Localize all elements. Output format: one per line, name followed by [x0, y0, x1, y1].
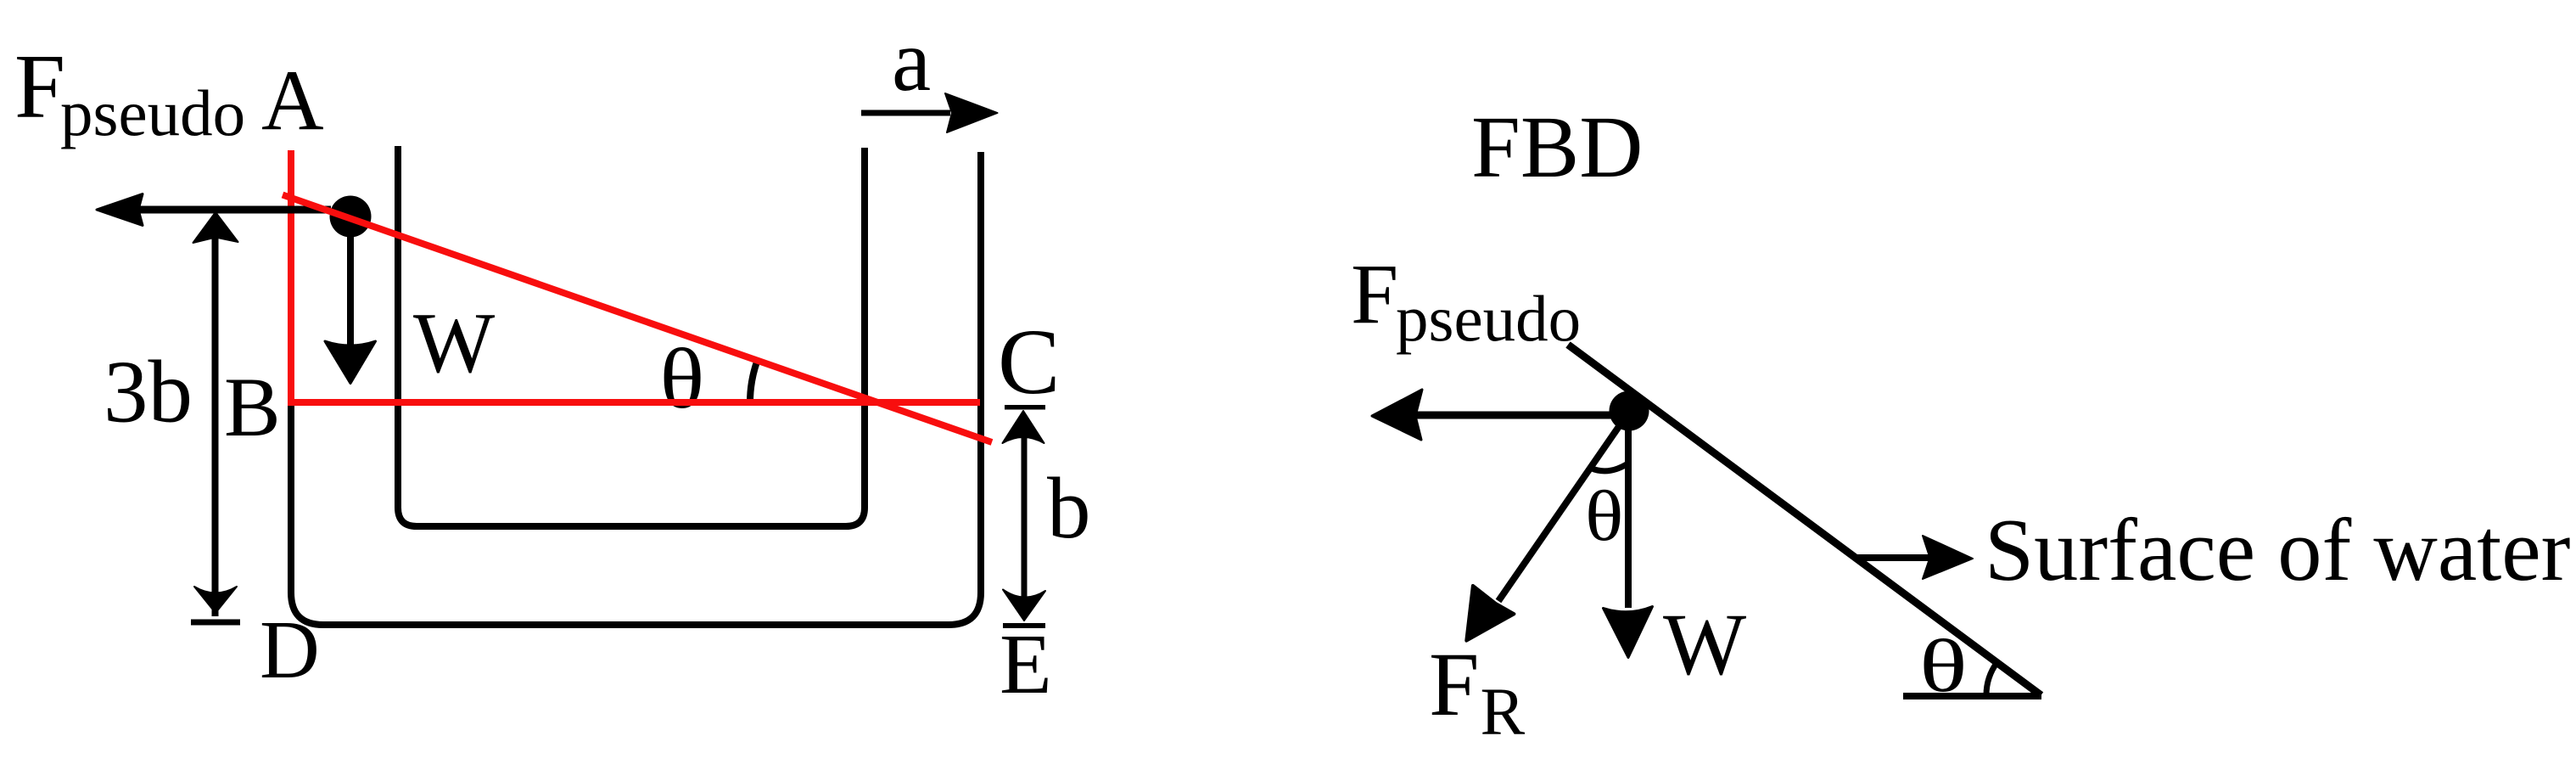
outer container wall [291, 152, 981, 625]
svg-text:b: b [1047, 460, 1091, 557]
svg-text:B: B [224, 360, 281, 454]
svg-text:a: a [892, 12, 931, 110]
bottom tick of 3b [191, 620, 240, 626]
svg-text:E: E [1000, 616, 1052, 711]
inner container wall [398, 146, 865, 526]
svg-text:θ: θ [1919, 624, 1968, 708]
svg-text:D: D [260, 604, 320, 696]
svg-text:W: W [413, 295, 496, 391]
tick at E level [1003, 623, 1045, 628]
label theta (bottom) [1919, 624, 1968, 708]
W arrow (FBD) [1625, 420, 1632, 608]
svg-text:pseudo: pseudo [1396, 282, 1581, 355]
svg-text:θ: θ [660, 330, 705, 426]
svg-text:Surface of water: Surface of water [1985, 501, 2570, 599]
svg-text:F: F [14, 37, 65, 138]
surface-of-water pointer arrow [1856, 554, 1935, 561]
acceleration arrow a [861, 110, 950, 116]
angle arc (bottom) [1986, 662, 1997, 695]
dimension arrow 3b [212, 216, 219, 616]
label theta (FBD centre) [1585, 476, 1623, 556]
water surface diagonal line [1568, 345, 2041, 695]
svg-text:pseudo: pseudo [60, 76, 245, 149]
svg-text:θ: θ [1585, 476, 1623, 556]
label theta (left) [660, 330, 705, 426]
svg-text:R: R [1481, 676, 1526, 750]
particle dot [1610, 391, 1649, 431]
svg-text:FBD: FBD [1471, 98, 1643, 196]
weight W arrow from bob [347, 216, 354, 348]
F pseudo arrow (left-pointing) [137, 206, 331, 214]
svg-text:F: F [1351, 246, 1398, 341]
red horizontal line B-C [292, 399, 980, 406]
svg-text:A: A [261, 53, 324, 149]
svg-text:W: W [1663, 596, 1746, 694]
svg-text:C: C [998, 310, 1060, 413]
angle arc (left) [750, 362, 757, 402]
svg-text:3b: 3b [104, 342, 193, 441]
F pseudo arrow (FBD) [1415, 412, 1616, 419]
F_R arrow [1498, 412, 1629, 601]
red vertical line A-B [288, 150, 294, 406]
bob at surface [330, 196, 372, 238]
tick at C level [1005, 405, 1045, 410]
angle arc between W and F_R [1591, 464, 1627, 471]
dimension arrow b [1022, 416, 1028, 616]
ground reference line (bottom) [1903, 693, 2041, 699]
svg-text:F: F [1429, 635, 1480, 735]
red tilted water-surface line [283, 195, 992, 443]
